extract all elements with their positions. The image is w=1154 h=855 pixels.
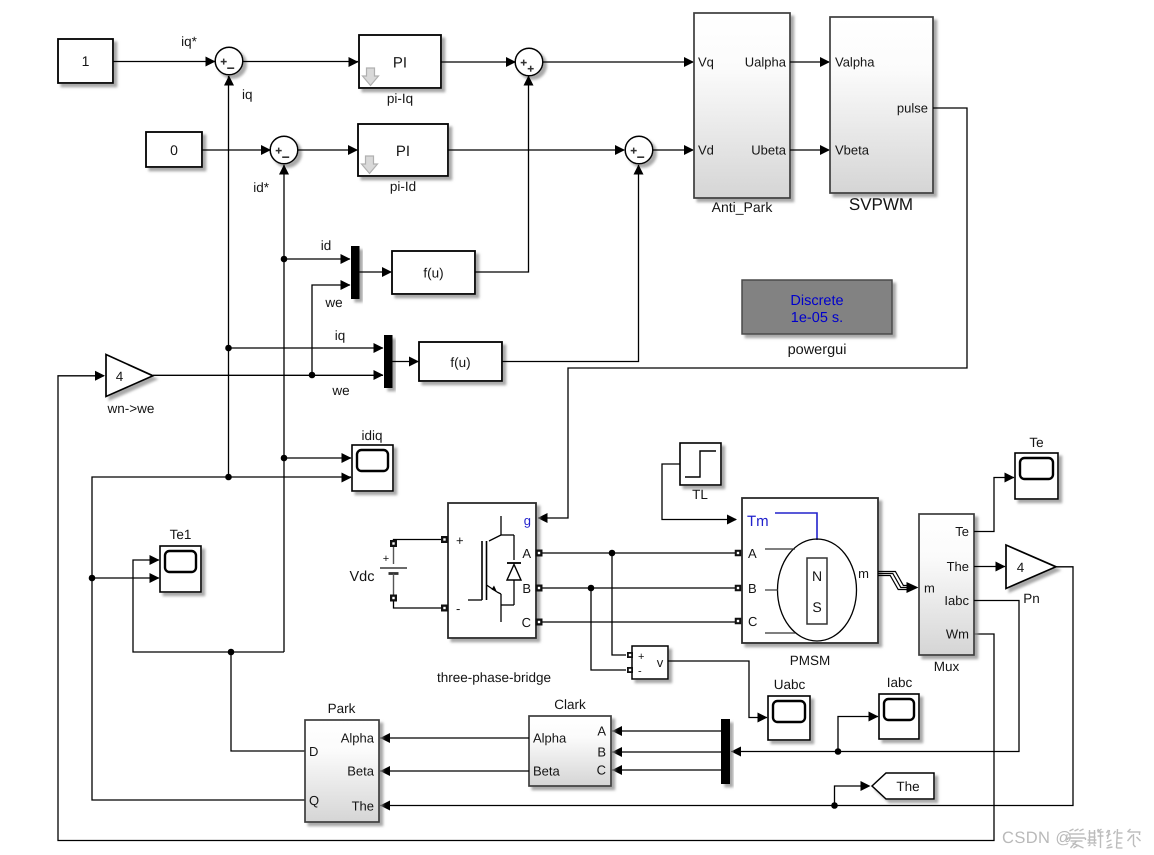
svg-text:A: A [748, 546, 757, 561]
sum junction S3 (Vd = PI out minus decouple) [625, 136, 653, 164]
wire phase B bridge to PMSM [543, 585, 736, 592]
svg-text:PI: PI [396, 143, 410, 160]
bus wire m from PMSM to Mux [878, 572, 919, 594]
wire Mux Te to scope Te [974, 473, 1015, 532]
svg-text:Vd: Vd [698, 143, 714, 158]
demux (Iabc to A,B,C) [721, 719, 730, 784]
wire phase A bridge to PMSM [543, 550, 736, 557]
svg-text:Q: Q [309, 793, 319, 808]
svg-text:Mux: Mux [934, 659, 960, 674]
wire sum2 to pi-Id [298, 145, 359, 155]
svg-text:Alpha: Alpha [533, 731, 567, 746]
svg-text:The: The [896, 779, 919, 794]
PMSM machine block [735, 498, 878, 643]
svg-text:f(u): f(u) [450, 355, 470, 370]
watermark CSDN @ (bottom right) [1002, 829, 1073, 847]
svg-text:Uabc: Uabc [774, 677, 806, 692]
wire v measurement to scope Uabc [668, 661, 768, 723]
wire branch to scope Te1 lower input [92, 573, 160, 583]
svg-text:+: + [638, 651, 644, 663]
svg-text:iq*: iq* [181, 34, 198, 49]
svg-text:wn->we: wn->we [107, 401, 155, 416]
subsystem Anti_Park [694, 13, 790, 198]
svg-text:-: - [456, 601, 460, 616]
sum junction S4 (Vq = PI out + decouple) [515, 48, 543, 76]
svg-text:SVPWM: SVPWM [849, 195, 913, 214]
svg-text:0: 0 [170, 142, 178, 158]
svg-text:three-phase-bridge: three-phase-bridge [437, 670, 551, 685]
svg-text:we: we [331, 383, 349, 398]
svg-text:B: B [748, 581, 757, 596]
wire Vdc plus to bridge plus [394, 539, 442, 542]
svg-text:Vbeta: Vbeta [835, 143, 870, 158]
wire iq feedback vertical up to sum1 [224, 76, 234, 481]
wire phase C bridge to PMSM [543, 621, 736, 623]
svg-text:Pn: Pn [1023, 591, 1040, 606]
wire iq branch to mux M2 input 1 [229, 343, 384, 353]
wire Clark Beta to Park Beta [380, 766, 529, 776]
svg-text:PMSM: PMSM [790, 653, 831, 668]
svg-text:m: m [924, 581, 935, 596]
wire gain output to mux M2 input 2 [153, 370, 384, 380]
svg-text:Te: Te [955, 524, 969, 539]
bus selector Mux [919, 514, 974, 655]
svg-text:D: D [309, 744, 318, 759]
svg-text:Ubeta: Ubeta [751, 143, 786, 158]
svg-text:Iabc: Iabc [944, 593, 969, 608]
gain block Pn (x4) [1006, 545, 1056, 589]
wire branch to scope Iabc [838, 712, 879, 752]
svg-text:B: B [522, 581, 531, 596]
wire sum1 to pi-Iq [243, 57, 359, 67]
svg-text:Te1: Te1 [170, 527, 192, 542]
svg-text:C: C [522, 615, 531, 630]
constant block value 1 (iq reference) [58, 39, 113, 83]
sum junction S1 (iq* minus iq) [215, 47, 243, 75]
svg-text:The: The [947, 559, 969, 574]
svg-text:Park: Park [328, 701, 356, 716]
wire constant 0 to sum2 [202, 145, 271, 155]
scope Iabc [879, 694, 919, 739]
watermark chinese characters ai-si-wei-er (drawn strokes) [1068, 829, 1141, 848]
svg-text:Clark: Clark [554, 697, 586, 712]
wire iq* : constant 1 to sum1 [113, 57, 216, 67]
wire pulse from SVPWM to bridge gate g [538, 108, 968, 523]
scope Uabc [768, 696, 810, 740]
wire Vdc minus to bridge minus [394, 602, 442, 609]
function block f(u) decouple1 [392, 251, 475, 294]
svg-text:N: N [812, 568, 822, 584]
voltage measurement block v [627, 646, 668, 679]
svg-text:+: + [383, 553, 389, 565]
powergui block Discrete 1e-05 s. [742, 280, 892, 334]
wire we branch to mux M1 input 2 [309, 280, 351, 378]
svg-text:pi-Iq: pi-Iq [387, 91, 413, 106]
svg-text:Beta: Beta [347, 764, 375, 779]
svg-text:f(u): f(u) [423, 266, 443, 281]
wire sum4 to Anti_Park Vq [543, 57, 695, 67]
svg-text:C: C [597, 763, 606, 778]
svg-text:CSDN @: CSDN @ [1002, 829, 1073, 847]
constant block value 0 (id reference) [146, 132, 202, 167]
three-phase bridge block (universal bridge) [441, 503, 543, 638]
svg-text:1e-05 s.: 1e-05 s. [791, 310, 843, 326]
svg-text:C: C [748, 614, 757, 629]
svg-text:The: The [352, 799, 374, 814]
subsystem Clark transform [529, 716, 611, 786]
svg-text:-: - [638, 666, 642, 678]
svg-text:4: 4 [116, 369, 124, 384]
wire idiq scope upper input [284, 453, 352, 463]
wire Ubeta to Vbeta [790, 145, 830, 155]
wire id branch to mux M1 input 1 [284, 254, 351, 264]
svg-text:Iabc: Iabc [887, 675, 913, 690]
wire id feedback vertical from Park D up to sum2 [228, 165, 305, 752]
step block TL (load torque) [680, 443, 721, 485]
wire Ualpha to Valpha [790, 57, 830, 67]
svg-text:iq: iq [335, 328, 346, 343]
svg-text:iq: iq [242, 87, 253, 102]
svg-text:Beta: Beta [533, 764, 561, 779]
PI controller pi-Id [358, 124, 448, 176]
svg-text:Anti_Park: Anti_Park [712, 199, 774, 215]
wire demux out C to Clark [612, 765, 721, 775]
svg-text:v: v [657, 655, 664, 670]
svg-text:Te: Te [1029, 435, 1043, 450]
svg-text:A: A [522, 546, 531, 561]
svg-text:1: 1 [82, 53, 90, 69]
svg-text:PI: PI [393, 55, 407, 72]
wire branch to goto tag The [835, 781, 871, 806]
mux M2 (iq,we) [384, 335, 393, 388]
svg-text:+: + [456, 533, 464, 548]
wire demux out A to Clark [612, 726, 721, 736]
svg-text:Alpha: Alpha [341, 731, 375, 746]
function block f(u) decouple2 [419, 342, 502, 381]
goto tag The [872, 773, 934, 799]
svg-text:pi-Id: pi-Id [390, 179, 416, 194]
svg-text:A: A [597, 724, 606, 739]
wire Mux The to gain Pn [974, 562, 1006, 572]
wire f(u)1 output up to sum4 [475, 76, 534, 273]
svg-text:g: g [524, 513, 531, 528]
mux M1 (id,we) [351, 246, 360, 299]
subsystem Park transform [305, 720, 379, 822]
wire pi-Iq to sum4 [441, 57, 516, 67]
svg-text:Wm: Wm [946, 627, 969, 642]
PI controller pi-Iq [359, 35, 441, 88]
wire TL to PMSM Tm input [662, 464, 737, 525]
wire pi-Id to sum3 [448, 145, 625, 155]
svg-text:pulse: pulse [897, 101, 928, 116]
sum junction S2 (id ref minus id) [270, 136, 298, 164]
svg-text:we: we [324, 295, 342, 310]
wire f(u)2 output up to sum3 [502, 165, 644, 362]
svg-text:m: m [858, 566, 869, 581]
gain block wn->we (x4) [106, 355, 153, 397]
svg-text:Vdc: Vdc [350, 569, 375, 585]
svg-text:Valpha: Valpha [835, 55, 875, 70]
wire speed feedback Wm to gain wn->we input [58, 371, 994, 841]
svg-text:Discrete: Discrete [790, 293, 843, 309]
scope idiq [352, 445, 393, 491]
svg-text:Tm: Tm [747, 513, 769, 530]
wire mux M2 to f(u) decouple2 [393, 357, 420, 367]
wire Mux Iabc to demux [731, 601, 1019, 757]
wire Clark Alpha to Park Alpha [380, 733, 529, 743]
svg-text:Vq: Vq [698, 55, 714, 70]
svg-text:4: 4 [1017, 560, 1025, 575]
wire demux out B to Clark [612, 747, 721, 757]
svg-text:TL: TL [692, 487, 708, 502]
svg-text:idiq: idiq [361, 428, 382, 443]
svg-text:B: B [597, 745, 606, 760]
svg-text:S: S [812, 599, 821, 615]
wire tap phase B to voltage measurement minus [591, 588, 626, 670]
scope Te [1015, 453, 1058, 499]
wire mux M1 to f(u) decouple1 [360, 267, 393, 277]
wire tap phase A to voltage measurement plus [612, 553, 626, 655]
svg-text:id: id [321, 238, 332, 253]
wire Pn output to Park The input (electrical angle) [380, 567, 1073, 811]
subsystem SVPWM [830, 17, 933, 193]
svg-text:id*: id* [253, 180, 270, 195]
scope Te1 [160, 546, 201, 592]
wire sum3 to Anti_Park Vd [653, 145, 695, 155]
DC voltage source Vdc [380, 540, 407, 602]
wire Park Q feedback to idiq scope lower input [89, 473, 352, 801]
wire Park D branch to scope Te1 upper input [133, 555, 231, 652]
svg-text:powergui: powergui [788, 342, 847, 358]
svg-text:Ualpha: Ualpha [745, 55, 787, 70]
